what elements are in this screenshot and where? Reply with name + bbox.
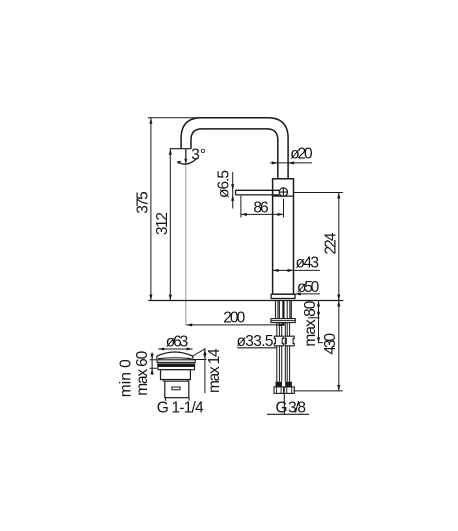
svg-text:ø43: ø43 bbox=[296, 254, 320, 271]
dim 224 bbox=[338, 193, 340, 301]
svg-text:224: 224 bbox=[322, 232, 339, 254]
dim o63 bbox=[158, 348, 192, 350]
svg-text:ø33.5: ø33.5 bbox=[237, 333, 274, 350]
svg-text:86: 86 bbox=[253, 199, 268, 216]
drain bottom ticks bbox=[166, 398, 190, 401]
drain locknut bbox=[158, 366, 195, 369]
dim 224 extension bbox=[294, 192, 343, 194]
dim max 80 bbox=[308, 317, 320, 319]
dim 312 bbox=[169, 149, 171, 301]
mounting washer and nut bbox=[271, 319, 295, 323]
left hose ferrule bbox=[276, 382, 283, 387]
fixing stud bbox=[282, 301, 284, 326]
dim o50 bbox=[295, 293, 320, 295]
dim o6.5 bbox=[232, 172, 234, 209]
spout outlet cap bbox=[170, 148, 191, 150]
right hose end nut bbox=[284, 387, 294, 394]
svg-text:max 60: max 60 bbox=[134, 350, 151, 395]
spout outer tube line bbox=[181, 118, 288, 179]
3 degree axis arrow bbox=[185, 149, 187, 158]
spout axis extension line bbox=[185, 149, 187, 325]
drain gasket bbox=[157, 363, 195, 366]
drain lower body bbox=[165, 381, 189, 398]
svg-text:ø6.5: ø6.5 bbox=[215, 170, 232, 198]
drain neck bbox=[163, 380, 188, 382]
svg-text:3°: 3° bbox=[191, 147, 206, 164]
spout inner tube line bbox=[191, 129, 278, 179]
drain washer bbox=[157, 360, 195, 363]
deck line bbox=[148, 300, 343, 302]
faucet body bbox=[273, 179, 294, 294]
svg-text:200: 200 bbox=[223, 310, 245, 327]
svg-text:430: 430 bbox=[322, 333, 339, 355]
dim 375 extension bbox=[148, 117, 205, 119]
base flange bbox=[271, 294, 295, 298]
dim o43 bbox=[273, 269, 320, 271]
dim o33.5 leader bbox=[237, 347, 276, 349]
inner supply pipes bbox=[279, 301, 287, 382]
svg-text:375: 375 bbox=[134, 191, 151, 214]
dim 430 bbox=[338, 301, 340, 391]
dim 430 extension bbox=[293, 390, 342, 392]
right hose ferrule bbox=[285, 382, 292, 387]
dim 375 bbox=[150, 118, 152, 301]
right hose coupling bbox=[285, 336, 294, 346]
svg-text:max 80: max 80 bbox=[302, 300, 319, 346]
svg-text:ø50: ø50 bbox=[297, 279, 320, 296]
dim 200 bbox=[186, 324, 284, 326]
drain dome cap bbox=[157, 352, 193, 359]
svg-text:G 1-1/4: G 1-1/4 bbox=[157, 400, 204, 417]
dim 86 extensions bbox=[241, 196, 284, 218]
hose outer walls bbox=[277, 323, 290, 382]
svg-text:G 3/8: G 3/8 bbox=[276, 399, 307, 416]
dim max 14 bbox=[193, 349, 206, 356]
svg-text:max 14: max 14 bbox=[206, 348, 223, 393]
svg-text:min 0: min 0 bbox=[118, 359, 135, 397]
dim 86 bbox=[241, 213, 284, 215]
left hose coupling bbox=[274, 336, 283, 346]
dim min 0 max 60 bbox=[151, 353, 153, 376]
threaded shank walls bbox=[276, 301, 292, 319]
svg-text:ø20: ø20 bbox=[290, 145, 313, 162]
3 degree swing arc bbox=[177, 159, 197, 165]
svg-text:ø63: ø63 bbox=[166, 333, 189, 350]
body joint line bbox=[273, 195, 294, 197]
dim o20 bbox=[270, 162, 312, 164]
drain notch bbox=[172, 387, 180, 390]
lever rod bbox=[236, 190, 280, 195]
screw circle bbox=[279, 188, 287, 196]
svg-text:312: 312 bbox=[154, 212, 171, 235]
G 3/8 leader bbox=[283, 393, 285, 414]
left hose end nut bbox=[274, 387, 284, 394]
drain body bbox=[161, 370, 191, 380]
